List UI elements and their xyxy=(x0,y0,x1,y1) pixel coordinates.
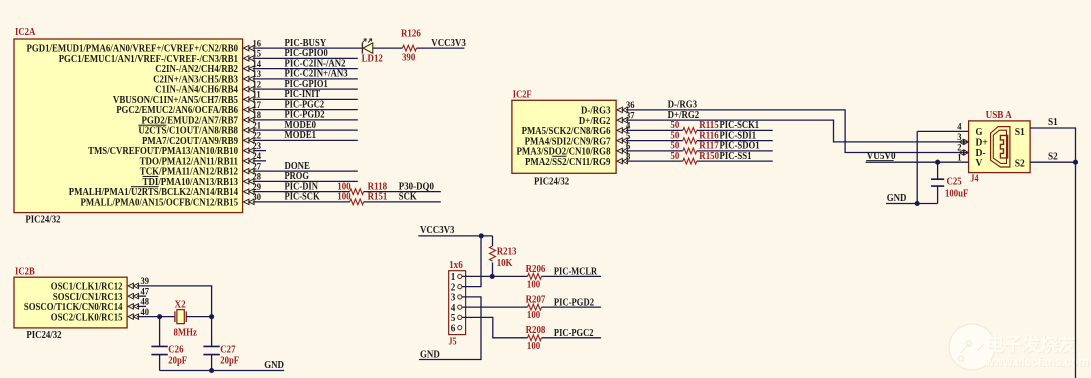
IC2B pin arrow 48 xyxy=(128,304,139,309)
svg-text:GND: GND xyxy=(420,349,440,360)
wire PIC-INIT xyxy=(253,98,358,100)
LED LD12 emission arrows xyxy=(363,39,372,43)
svg-text:R126: R126 xyxy=(401,29,421,40)
wire PIC-PGD2 xyxy=(542,306,602,308)
IC2F pin arrow 8 xyxy=(617,158,628,163)
wire OSC2 pin40 to crystal left xyxy=(137,316,175,318)
resistor R208 100 (PIC-PGC2) xyxy=(528,335,542,341)
wire J5 pin2 to VCC3V3 xyxy=(462,236,481,287)
svg-text:R150: R150 xyxy=(699,151,719,162)
wire OSC1 pin39 to crystal right xyxy=(137,286,212,317)
svg-text:PIC24/32: PIC24/32 xyxy=(26,330,61,341)
wire USB G pin to ground drop xyxy=(917,130,968,132)
wire PROG xyxy=(253,180,358,182)
svg-text:LD12: LD12 xyxy=(362,54,383,65)
wire DONE xyxy=(253,170,358,172)
wire PIC-GPIO0 xyxy=(253,57,358,59)
svg-text:R207: R207 xyxy=(526,295,546,306)
wire R126 to VCC3V3 xyxy=(417,47,465,49)
svg-text:PIC-PGD2: PIC-PGD2 xyxy=(554,297,594,308)
wire D-/RG3 from IC2F pin36 to USB D- xyxy=(626,110,969,153)
svg-text:C27: C27 xyxy=(220,345,235,356)
J5 pin 4 circle xyxy=(458,305,462,309)
resistor R117 50 (PIC-SDO1) xyxy=(683,148,697,154)
svg-text:S2: S2 xyxy=(1048,151,1058,162)
IC2B pin arrow 40 xyxy=(128,314,139,319)
svg-text:IC2A: IC2A xyxy=(15,27,36,38)
wire MODE1 xyxy=(253,139,358,141)
svg-text:PIC-SS1: PIC-SS1 xyxy=(720,151,752,162)
svg-text:390: 390 xyxy=(402,53,415,64)
wire IC2F pin 5 to R116 xyxy=(626,140,683,142)
svg-text:电子发烧友: 电子发烧友 xyxy=(986,334,1077,355)
svg-text:J5: J5 xyxy=(449,337,457,348)
IC2A pin arrow 12 xyxy=(244,86,255,91)
junction OSC2 / C26 xyxy=(157,314,162,319)
IC2A pin arrow 27 xyxy=(244,168,255,173)
wire PIC-SCK1 xyxy=(697,129,773,131)
wire J5 pin5 to R208 xyxy=(462,317,528,337)
junction GND / shield drop xyxy=(915,201,920,206)
wire PIC-C2IN-/AN2 xyxy=(253,68,358,70)
wire PIC-SCK from IC2A to series resistor xyxy=(253,201,350,203)
IC2A pin arrow 14 xyxy=(244,66,255,71)
wire SCK xyxy=(364,201,441,203)
svg-text:R213: R213 xyxy=(497,247,517,258)
wire IC2F pin 6 to R117 xyxy=(626,150,683,152)
svg-text:S2: S2 xyxy=(1015,158,1025,170)
IC2A pin arrow 13 xyxy=(244,76,255,81)
IC2A pin arrow 29 xyxy=(244,189,255,194)
svg-text:V: V xyxy=(976,157,983,169)
IC2A pin arrow 23 xyxy=(244,148,255,153)
wire PIC-GPIO1 xyxy=(253,88,358,90)
svg-text:IC2B: IC2B xyxy=(15,267,35,278)
IC2F pin arrow 36 xyxy=(617,107,628,112)
resistor R151 100 (PIC-SCK to SCK) xyxy=(350,199,364,205)
svg-text:PIC24/32: PIC24/32 xyxy=(25,215,60,226)
svg-text:20pF: 20pF xyxy=(220,356,239,367)
wire MODE0 xyxy=(253,129,358,131)
svg-text:1x6: 1x6 xyxy=(449,260,463,271)
svg-text:100: 100 xyxy=(527,341,540,352)
svg-text:8MHz: 8MHz xyxy=(174,328,198,339)
svg-text:100: 100 xyxy=(337,192,350,203)
wire C26 top lead xyxy=(159,317,161,347)
IC2F pin arrow 6 xyxy=(617,148,628,153)
svg-text:100: 100 xyxy=(527,310,540,321)
wire C25 top lead xyxy=(937,162,939,179)
wire R213 bottom lead xyxy=(492,263,494,277)
wire D+/RG2 from IC2F pin37 to USB D+ xyxy=(626,120,969,142)
wire VCC3V3 rail xyxy=(418,235,492,237)
wire S1 to frame drop xyxy=(1030,128,1075,378)
svg-text:C25: C25 xyxy=(947,177,962,188)
IC2A pin arrow 11 xyxy=(244,97,255,102)
junction VU5V0 / C25 xyxy=(935,160,940,165)
svg-text:IC2F: IC2F xyxy=(513,90,532,101)
resistor R206 100 (PIC-MCLR) xyxy=(528,274,542,280)
connector J5 1x6 header xyxy=(449,271,466,335)
svg-text:50: 50 xyxy=(670,151,679,162)
svg-text:S1: S1 xyxy=(1015,126,1025,138)
J5 pin 6 circle xyxy=(458,326,462,330)
wire C26 bottom lead xyxy=(159,355,161,371)
svg-text:GND: GND xyxy=(264,360,284,371)
wire IC2F pin 8 to R150 xyxy=(626,160,683,162)
resistor R118 100 (PIC-DIN to P30-DQ0) xyxy=(350,189,364,195)
IC2F pin arrow 4 xyxy=(617,128,628,133)
junction OSC1 riser / crystal right / C27 xyxy=(209,314,214,319)
IC2A pin arrow 15 xyxy=(244,56,255,61)
wire stub pin 47 xyxy=(137,295,146,297)
IC2A pin arrow 22 xyxy=(244,138,255,143)
svg-text:C26: C26 xyxy=(168,345,183,356)
svg-text:20pF: 20pF xyxy=(168,356,187,367)
resistor R116 50 (PIC-SDI1) xyxy=(683,138,697,144)
wire C25 bottom lead xyxy=(937,186,939,203)
svg-text:R151: R151 xyxy=(368,192,388,203)
wire PIC-PGC2 xyxy=(542,337,602,339)
USB pin arrow 3 xyxy=(959,139,968,144)
svg-text:PMALL/PMA0/AN15/OCFB/CN12/RB15: PMALL/PMA0/AN15/OCFB/CN12/RB15 xyxy=(81,197,239,208)
svg-text:SCK: SCK xyxy=(399,192,417,203)
wire R213 top lead xyxy=(492,236,494,246)
wire PIC-SDO1 xyxy=(697,150,773,152)
IC2A pin arrow 24 xyxy=(244,158,255,163)
wire PIC-SS1 xyxy=(697,160,773,162)
junction R213 / MCLR line xyxy=(490,274,495,279)
wire J5 pin1 to R206 xyxy=(462,275,528,277)
svg-text:GND: GND xyxy=(887,193,907,204)
LED LD12 xyxy=(361,43,363,54)
wire J5 pin4 to R207 xyxy=(462,306,528,308)
wire stub pin 24 xyxy=(253,160,266,162)
svg-text:USB A: USB A xyxy=(986,110,1013,121)
USB pin arrow 2 xyxy=(959,150,968,155)
resistor R126 390 xyxy=(403,45,417,51)
svg-text:VCC3V3: VCC3V3 xyxy=(431,38,466,49)
wire stub pin 48 xyxy=(137,305,146,307)
wire PIC-C2IN+/AN3 xyxy=(253,78,358,80)
svg-text:R206: R206 xyxy=(526,264,546,275)
J5 pin 5 circle xyxy=(458,315,462,319)
IC IC2A PIC24/32 MCU port-B block xyxy=(14,39,243,213)
IC IC2B PIC24/32 MCU oscillator block xyxy=(14,277,127,328)
junction C27 / GND rail xyxy=(209,368,214,373)
wire C27 bottom lead xyxy=(211,355,213,371)
IC2F pin arrow 37 xyxy=(617,117,628,122)
wire GND rail USB area xyxy=(886,203,938,205)
USB plug icon inside J4 xyxy=(991,127,1010,167)
IC2A pin arrow 21 xyxy=(244,127,255,132)
wire P30-DQ0 xyxy=(364,191,441,193)
wire IC2F pin 4 to R115 xyxy=(626,129,683,131)
IC IC2F PIC24/32 MCU USB/SPI block xyxy=(512,100,616,173)
wire stub pin 23 xyxy=(253,150,266,152)
wire PIC-SDI1 xyxy=(697,140,773,142)
resistor R150 50 (PIC-SS1) xyxy=(683,158,697,164)
svg-text:J4: J4 xyxy=(970,174,978,185)
IC2B pin arrow 47 xyxy=(128,293,139,298)
svg-text:www.elecfans.com: www.elecfans.com xyxy=(984,354,1089,369)
IC2B pin arrow 39 xyxy=(128,283,139,288)
IC2A pin arrow 30 xyxy=(244,199,255,204)
wire PIC-PGD2 xyxy=(253,119,358,121)
wire PIC-PGC2 xyxy=(253,109,358,111)
wire S2 xyxy=(1030,161,1075,163)
connector J4 USB A xyxy=(969,121,1031,173)
svg-text:100uF: 100uF xyxy=(945,189,968,200)
wire crystal right lead xyxy=(186,316,211,318)
svg-text:PIC24/32: PIC24/32 xyxy=(534,177,569,188)
IC2A pin arrow 28 xyxy=(244,179,255,184)
svg-text:PIC-MCLR: PIC-MCLR xyxy=(554,267,598,278)
J5 pin 3 circle xyxy=(458,295,462,299)
wire GND rail (oscillator) xyxy=(160,370,285,372)
watermark elecfans logo xyxy=(949,324,1090,370)
svg-text:PIC-SCK: PIC-SCK xyxy=(285,192,320,203)
wire PIC-MCLR xyxy=(542,275,602,277)
svg-text:X2: X2 xyxy=(175,300,186,311)
junction VCC3V3 / J5 pin2 riser xyxy=(479,233,484,238)
wire ground drop vertical xyxy=(916,131,918,203)
svg-text:OSC2/CLK0/RC15: OSC2/CLK0/RC15 xyxy=(51,312,123,323)
svg-text:S1: S1 xyxy=(1048,117,1058,128)
svg-text:VCC3V3: VCC3V3 xyxy=(420,225,455,236)
junction S1/S2 xyxy=(1073,160,1078,165)
svg-text:PIC-PGC2: PIC-PGC2 xyxy=(554,328,594,339)
svg-text:PMA2/SS2/CN11/RG9: PMA2/SS2/CN11/RG9 xyxy=(525,157,611,168)
svg-text:100: 100 xyxy=(527,279,540,290)
svg-text:MODE1: MODE1 xyxy=(285,130,317,141)
IC2F pin arrow 5 xyxy=(617,138,628,143)
svg-text:6: 6 xyxy=(451,323,456,334)
wire VU5V0 to USB V pin xyxy=(866,161,969,163)
crystal X2 8MHz xyxy=(177,310,184,324)
wire LED anode to R126 xyxy=(373,47,403,49)
J5 pin 1 circle xyxy=(458,274,462,278)
wire C27 top lead xyxy=(211,317,213,347)
wire J5 pin3 to GND xyxy=(419,297,481,360)
J5 pin 2 circle xyxy=(458,285,462,289)
resistor R207 100 (PIC-PGD2) xyxy=(528,304,542,310)
IC2A pin arrow 17 xyxy=(244,107,255,112)
wire PIC-BUSY from IC2A pin16 to LED xyxy=(253,47,362,49)
IC2A pin arrow 18 xyxy=(244,117,255,122)
wire PIC-DIN from IC2A to series resistor xyxy=(253,191,350,193)
resistor R115 50 (PIC-SCK1) xyxy=(683,127,697,133)
svg-text:R208: R208 xyxy=(526,325,546,336)
IC2A pin arrow 16 xyxy=(244,45,255,50)
svg-text:10K: 10K xyxy=(497,258,513,269)
